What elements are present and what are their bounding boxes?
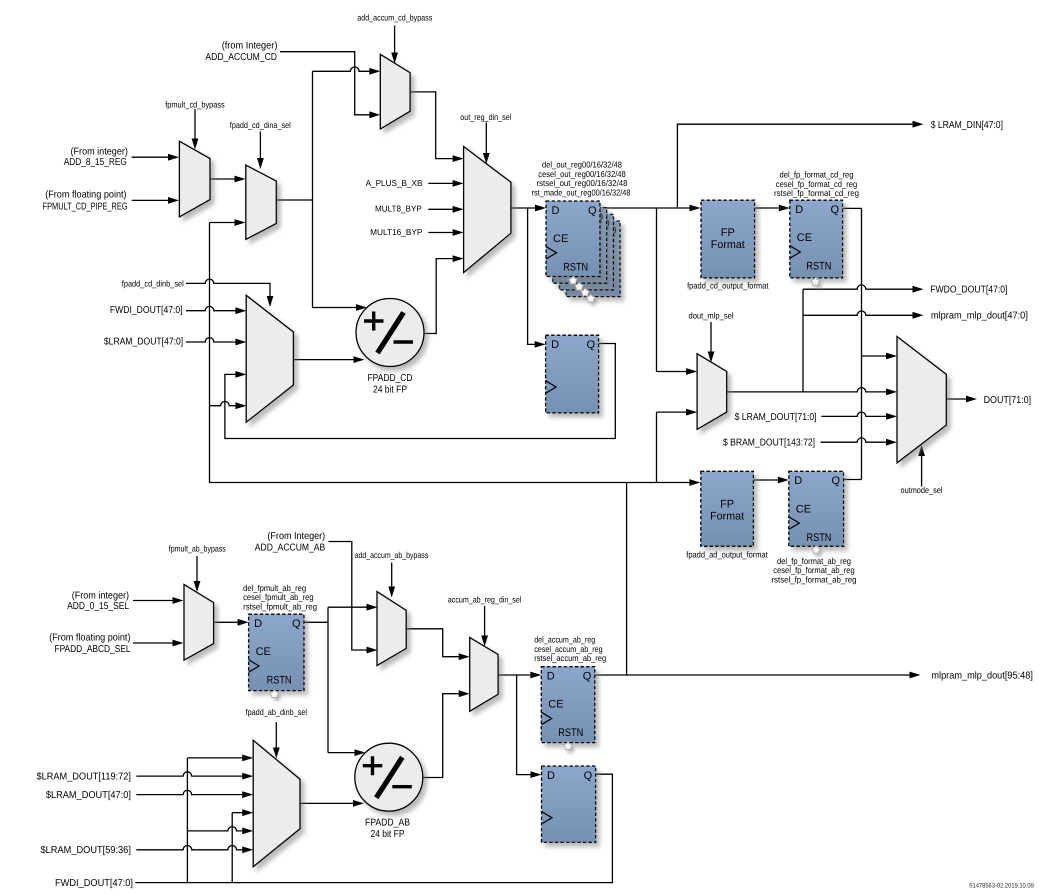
svg-text:D: D [551,339,559,351]
svg-text:add_accum_ab_bypass: add_accum_ab_bypass [355,550,429,560]
arrowhead into fpmult_ab mux in2 [173,640,184,647]
arrowhead fpmult_cd select [192,139,199,150]
svg-text:Q: Q [583,671,592,683]
wire x861 tap to outmode in1 [862,355,887,357]
wire vertA to dinb_ab in5 [187,827,242,831]
wire FWDO_DOUT line [803,285,913,289]
wire LRAM_DOUT119 input [136,772,242,776]
svg-text:rstsel_fp_format_ab_reg: rstsel_fp_format_ab_reg [772,574,857,584]
wire FPADD_CD out up to out_reg mux [424,259,453,334]
wire fp_format_cd reg Q vertical x861 [843,208,862,479]
svg-text:CE: CE [796,503,811,515]
arrowhead to $LRAM_DIN output [913,121,924,128]
svg-text:out_reg_din_sel: out_reg_din_sel [460,112,511,122]
arrowhead into delay reg D [535,341,546,348]
svg-text:A_PLUS_B_XB: A_PLUS_B_XB [366,178,423,188]
arrowhead into fp_format_cd reg D [779,205,790,212]
arrowhead into accum_ab reg D [530,672,541,679]
svg-text:fpadd_cd_output_format: fpadd_cd_output_format [687,280,769,290]
svg-text:fpadd_ad_output_format: fpadd_ad_output_format [686,550,768,560]
arrowhead to mlpram_mlp_dout95 output [910,672,921,679]
arrowhead dout_mlp select [708,352,715,363]
mux fpmult_ab_bypass [184,584,214,660]
svg-text:Q: Q [588,205,597,217]
arrowhead into fpadd_cd_dina mux in2 [235,219,246,226]
arrowhead fpadd_cd_dina select [257,158,264,169]
svg-text:CE: CE [548,699,563,711]
arrowhead into out_reg mux in4 [453,229,464,236]
wire add_accum_ab out [406,629,459,657]
register out_reg stack copy 1 [553,208,607,284]
svg-text:$LRAM_DOUT[59:36]: $LRAM_DOUT[59:36] [41,845,132,856]
svg-text:Format: Format [711,239,745,251]
register out_reg stack copy 2 [559,214,613,290]
svg-text:rstsel_fp_format_cd_reg: rstsel_fp_format_cd_reg [774,188,859,198]
wire add_accum_cd out to out_reg mux [410,92,453,159]
arrowhead into fpadd_cd_dinb mux in4 [235,402,246,409]
arrowhead into fpadd_ab_dinb mux in2 [242,773,253,780]
svg-text:mlpram_mlp_dout[47:0]: mlpram_mlp_dout[47:0] [931,311,1028,322]
wire mlpram_mlp_dout47 line [803,311,913,315]
wire ADD_8_15_REG input [132,156,169,158]
arrowhead into fpadd_cd_dinb mux in1 [235,307,246,314]
arrowhead into out_reg stack D [535,205,546,212]
wire A_PLUS_B_XB input [428,182,452,184]
svg-text:(From integer): (From integer) [71,146,128,157]
wire MULT16_BYP input [428,232,452,234]
svg-text:fpadd_cd_dina_sel: fpadd_cd_dina_sel [230,120,291,130]
wire fpadd_cd_dinb_sel select [186,279,270,296]
svg-text:FPADD_ABCD_SEL: FPADD_ABCD_SEL [55,644,131,655]
register del_fpmult_ab_reg [249,614,304,690]
svg-text:D: D [547,770,555,782]
svg-text:fpmult_ab_bypass: fpmult_ab_bypass [169,544,226,554]
svg-text:MULT16_BYP: MULT16_BYP [370,227,423,237]
svg-text:51478563-02.2019.10.09: 51478563-02.2019.10.09 [969,882,1034,889]
arrowhead into bottom delay reg D [531,771,542,778]
svg-text:ADD_ACCUM_AB: ADD_ACCUM_AB [255,543,326,554]
svg-text:RSTN: RSTN [563,262,588,274]
wire out_reg mux out to reg stack D [511,207,535,209]
svg-text:MULT8_BYP: MULT8_BYP [375,204,422,214]
mux fpadd_cd_dinb [246,295,293,422]
wire accum_ab_reg_din_sel select [484,606,486,636]
svg-text:Q: Q [292,618,301,630]
wire fpmult_cd_bypass select [194,109,196,139]
mux add_accum_cd_bypass [380,54,410,129]
arrowhead into out_reg mux in5 [453,255,464,262]
arrowhead add_accum_ab select [388,587,395,598]
wire fpmult_ab_bypass select [196,556,198,581]
arrowhead fpmult_ab select [194,581,201,592]
wire FPADD_ABCD_SEL input [133,642,173,644]
svg-text:24 bit FP: 24 bit FP [371,829,405,840]
wire outmode_sel select [921,456,923,487]
svg-text:DOUT[71:0]: DOUT[71:0] [984,395,1032,406]
svg-text:FPADD_AB: FPADD_AB [365,818,410,829]
wire node x527 down to delay reg D [528,208,535,344]
svg-text:Q: Q [832,475,841,487]
arrowhead fpadd_cd_dinb select [267,296,274,307]
svg-text:mlpram_mlp_dout[95:48]: mlpram_mlp_dout[95:48] [931,670,1033,681]
register out_reg stack front del_out_reg [546,201,600,277]
arrowhead into fpadd_ab_dinb mux in5 [242,828,253,835]
wire MULT8_BYP input [428,208,452,210]
svg-text:RSTN: RSTN [806,532,831,544]
svg-text:rstsel_accum_ab_reg: rstsel_accum_ab_reg [534,653,606,663]
register delay reg (no CE) [546,335,599,413]
reset blob fp_format_cd blob [811,277,820,285]
svg-text:CE: CE [797,232,812,244]
arrowhead to FWDO_DOUT output [913,286,924,293]
wire FWDI_DOUT input [186,306,235,310]
reset blob accum_ab blob [564,742,573,750]
mux fpadd_cd_dina_sel [246,165,276,239]
arrowhead outmode select [918,445,925,456]
wire FPADD_AB out up [423,694,459,778]
arrowhead into dout_mlp mux in2 [686,409,697,416]
wire dina mux in2 stub [210,222,235,224]
wire node x312 to add_accum_cd in1 [313,67,370,71]
svg-text:FPADD_CD: FPADD_CD [368,373,413,384]
arrowhead into FPADD_AB top [355,749,366,756]
mux out_reg_din_sel [464,147,511,273]
wire stack Q to FP Format cd [600,207,690,209]
svg-text:rstsel_fpmult_ab_reg: rstsel_fpmult_ab_reg [243,601,317,611]
reset blob stack blob 2 [575,282,584,290]
register out_reg stack copy 3 [566,221,620,297]
wire bottom reg Q loop [135,774,612,882]
wire node x656 lower segment [657,412,687,482]
wire vertical x803 [802,289,804,392]
svg-text:CE: CE [553,233,568,245]
wire vertA to dinb_ab in1 [187,757,242,759]
adder/subtractor FPADD_CD [356,299,424,367]
wire accum_ab mux out to reg D [498,674,530,676]
svg-text:Q: Q [831,204,840,216]
wire dina out to node x312 [276,71,312,307]
wire vertical A x187 [186,758,188,883]
arrowhead into fpmult_cd mux in2 [168,197,179,204]
arrowhead into add_accum_ab mux in1 [367,604,378,611]
wire node x516 down to bottom reg D [517,675,531,775]
reset blob stack blob 3 [581,288,590,296]
arrowhead into add_accum_cd mux in2 [369,111,380,118]
wire LRAM_DOUT71 input [821,412,886,416]
arrowhead into fpadd_ab_dinb mux in1 [242,755,253,762]
wire delay reg Q loop [225,344,615,439]
arrowhead into outmode mux in2 [886,389,897,396]
arrowhead into fpadd_ab_dinb mux in6 [242,846,253,853]
svg-text:FP: FP [721,227,735,239]
reset blob fp_format_ab blob [812,546,821,554]
svg-text:Format: Format [710,510,744,522]
svg-text:(From Integer): (From Integer) [267,531,325,542]
arrowhead into fpadd_cd FP Format [690,205,701,212]
wire fpadd_ab_dinb_sel select [275,722,277,748]
svg-text:fpmult_cd_bypass: fpmult_cd_bypass [165,100,225,110]
arrowhead into outmode mux in4 [886,439,897,446]
mux dout_mlp_sel [697,354,727,430]
svg-text:dout_mlp_sel: dout_mlp_sel [689,310,734,320]
wire add_accum_cd_bypass select [394,26,396,53]
svg-text:$ BRAM_DOUT[143:72]: $ BRAM_DOUT[143:72] [723,438,815,449]
wire fpadd_ab_dinb mux out [300,802,353,804]
wire fpadd_cd_dinb mux in4 stub [210,401,236,405]
arrowhead into FPADD_CD top [356,304,367,311]
svg-text:(from Integer): (from Integer) [222,40,278,51]
wire FP Format cd to reg D [755,207,779,209]
wire dout_mlp_sel select [710,322,712,352]
arrowhead fpadd_ab_dinb select [273,748,280,759]
FP Format block fpadd_cd_output_format [701,200,755,278]
svg-text:(From floating point): (From floating point) [49,632,130,643]
arrowhead into fpadd_cd_dinb mux in2 [235,339,246,346]
register del_accum_ab_reg [541,667,595,743]
svg-text:FP: FP [720,498,734,510]
wire LRAM_DIN branch [677,124,912,208]
wire FP Format ad to reg D [753,479,777,481]
wire x328 to FPADD_AB top input [328,752,355,754]
svg-text:RSTN: RSTN [267,675,292,687]
wire node x312 to FPADD_CD top input [313,307,357,309]
arrowhead into add_accum_cd mux in1 [369,68,380,75]
svg-text:CE: CE [256,646,271,658]
svg-text:D: D [795,204,803,216]
arrowhead to mlpram_mlp_dout47 output [913,312,924,319]
reset blob stack blob 4 [586,294,595,302]
wire mlpram_mlp_dout95 line [595,674,910,676]
wire fpmult_cd out to dina mux [210,178,235,180]
svg-text:(From floating point): (From floating point) [45,190,126,201]
svg-text:(From integer): (From integer) [72,590,129,601]
arrowhead into fpmult_ab reg D [238,619,249,626]
arrowhead into accum_ab mux in1 [459,653,470,660]
wire ADD_ACCUM_AB input [329,542,367,651]
arrowhead out_reg_din select [483,153,490,164]
register del_fp_format_ab_reg [789,471,844,546]
mux accum_ab_reg_din_sel [470,637,498,711]
arrowhead into fpmult_cd mux in1 [168,154,179,161]
arrowhead into outmode mux in3 [886,413,897,420]
svg-text:RSTN: RSTN [806,261,831,273]
register bottom delay reg (no CE) [542,766,596,842]
wire fp_format_ab reg Q [844,479,862,481]
wire FPMULT_CD_PIPE_REG input [132,199,169,201]
arrowhead into FPADD_AB bottom [353,800,364,807]
svg-text:accum_ab_reg_din_sel: accum_ab_reg_din_sel [448,595,522,605]
svg-text:D: D [254,618,262,630]
wire LRAM_DOUT47b input [136,790,242,794]
arrowhead add_accum_cd select [391,53,398,64]
wire fpmult_ab out to reg D [214,621,238,623]
arrowhead into fpadd_ab_dinb mux in4 [242,809,253,816]
arrowhead into fpadd_ad FP Format [689,479,700,486]
svg-text:fpadd_ab_dinb_sel: fpadd_ab_dinb_sel [246,707,308,717]
svg-text:$LRAM_DOUT[119:72]: $LRAM_DOUT[119:72] [37,771,132,782]
svg-text:outmode_sel: outmode_sel [901,485,943,495]
arrowhead into add_accum_ab mux in2 [367,647,378,654]
wire vertical x626 [626,483,628,676]
svg-text:ADD_ACCUM_CD: ADD_ACCUM_CD [205,52,277,63]
svg-text:FWDI_DOUT[47:0]: FWDI_DOUT[47:0] [110,305,183,316]
svg-text:Q: Q [587,339,596,351]
svg-text:D: D [794,475,802,487]
arrowhead into dout_mlp mux in1 [686,368,697,375]
svg-text:FWDO_DOUT[47:0]: FWDO_DOUT[47:0] [930,284,1007,295]
wire dout_mlp out to outmode [727,388,886,392]
wire LRAM_DOUT47 input [186,338,235,342]
mux outmode_sel [897,337,946,463]
wire ADD_0_15_SEL input [133,600,173,602]
wire node dinb vertical x209 [210,223,690,483]
svg-text:D: D [552,205,560,217]
arrowhead into fpmult_ab mux in1 [173,597,184,604]
wire DOUT output line [946,398,966,400]
wire fpadd_cd_dinb mux out [293,359,353,361]
svg-text:$LRAM_DOUT[47:0]: $LRAM_DOUT[47:0] [46,790,131,801]
arrowhead into fpadd_ab_dinb mux in3 [242,791,253,798]
mux fpadd_ab_dinb [253,740,300,866]
reset blob fpmult_ab blob [270,690,279,698]
svg-text:FPMULT_CD_PIPE_REG: FPMULT_CD_PIPE_REG [43,202,128,213]
svg-text:rst_made_out_reg00/16/32/48: rst_made_out_reg00/16/32/48 [532,188,631,198]
svg-text:ADD_0_15_SEL: ADD_0_15_SEL [67,601,129,612]
arrowhead into outmode mux in1 [886,353,897,360]
svg-text:fpadd_cd_dinb_sel: fpadd_cd_dinb_sel [122,279,184,289]
svg-text:ADD_8_15_REG: ADD_8_15_REG [64,157,127,168]
svg-text:$ LRAM_DIN[47:0]: $ LRAM_DIN[47:0] [931,120,1003,131]
wire node x656 to dout_mlp in1 [657,208,687,372]
arrowhead into out_reg mux in3 [453,206,464,213]
mux add_accum_ab_bypass [377,592,406,666]
wire vertB to dinb_ab in4 [232,812,242,814]
wire vertical B x232 [231,813,233,883]
arrowhead into out_reg mux in1 [453,155,464,162]
svg-text:$ LRAM_DOUT[71:0]: $ LRAM_DOUT[71:0] [735,412,817,423]
arrowhead into fp_format_ab reg D [778,477,789,484]
wire fpadd_cd_dina_sel select [259,132,261,159]
arrowhead into fpadd_cd_dina mux in1 [235,176,246,183]
arrowhead accum_ab select [481,636,488,647]
svg-text:add_accum_cd_bypass: add_accum_cd_bypass [357,13,432,23]
svg-text:$LRAM_DOUT[47:0]: $LRAM_DOUT[47:0] [104,336,183,347]
wire add_accum_ab_bypass select [391,563,393,587]
wire x328 to add_accum_ab in1 [328,606,367,608]
arrowhead into out_reg mux in2 [453,180,464,187]
FP Format block fpadd_ad_output_format [701,471,754,546]
reset blob stack blob 1 [569,276,578,284]
wire out_reg_din_sel select [485,123,487,154]
wire BRAM_DOUT input [821,438,887,442]
arrowhead into fpadd_cd_dinb mux in3 [235,371,246,378]
wire ADD_ACCUM_CD input [280,52,369,115]
svg-text:24 bit FP: 24 bit FP [373,385,407,396]
arrowhead into accum_ab mux in2 [459,690,470,697]
mux fpmult_cd_bypass [179,141,210,217]
wire fpmult_ab reg Q node x328 [304,607,328,752]
arrowhead into FPADD_CD bottom [354,356,365,363]
arrowhead to DOUT output [966,396,977,403]
svg-text:Q: Q [584,770,593,782]
adder/subtractor FPADD_AB [355,743,423,811]
svg-text:D: D [547,671,555,683]
svg-text:RSTN: RSTN [558,727,583,739]
wire LRAM_DOUT59 input [136,845,242,849]
register del_fp_format_cd_reg [790,200,843,278]
svg-text:FWDI_DOUT[47:0]: FWDI_DOUT[47:0] [55,878,133,889]
